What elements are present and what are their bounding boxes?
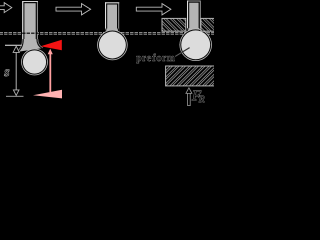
s dimension arrowhead down xyxy=(13,90,19,96)
clamp block top-right (hatched) xyxy=(201,18,215,31)
flare trumpet rod 1 to ball 1 xyxy=(17,39,43,52)
s dimension arrowhead up xyxy=(13,46,19,52)
flare trumpet rod 3 to ball 3 xyxy=(184,28,205,34)
force arrow F_R (ghost, pointing up) xyxy=(186,88,192,106)
ball 2 (middle) xyxy=(97,30,128,61)
hollow arrow C (frame 2 to 3) xyxy=(136,4,171,15)
s dimension bottom bar xyxy=(6,96,24,97)
rod 3 (right clamped rod) xyxy=(187,1,201,34)
flare trumpet rod 2 to ball 2 xyxy=(101,29,123,36)
red strike arrow (wedge) at rod 1 xyxy=(41,40,62,51)
dashed reference line (dark core) xyxy=(0,32,214,34)
ball 3 (right, clamped frame) xyxy=(179,29,212,62)
s dimension line xyxy=(16,47,17,95)
hollow arrow A (entering left) xyxy=(0,3,12,13)
clamp block top-left (hatched) xyxy=(162,18,186,31)
anvil block bottom-right (hatched) xyxy=(166,66,215,86)
pink vertical arrow (drop path) xyxy=(48,49,53,92)
rod 2 (middle pendulum rod) xyxy=(105,2,119,33)
leader line from label to ball 3 xyxy=(175,48,189,57)
pink ghost wedge arrow (lower position) xyxy=(33,90,62,99)
dashed reference line (halo) xyxy=(0,32,214,35)
label F_R xyxy=(192,91,201,100)
ball 1 (left, low position) xyxy=(21,49,48,76)
s dimension top bar xyxy=(5,45,22,46)
label s xyxy=(4,70,9,76)
label preform xyxy=(137,54,175,63)
rod 1 (left pendulum rod) xyxy=(22,1,38,46)
hollow arrow B (frame 1 to 2) xyxy=(56,4,91,15)
